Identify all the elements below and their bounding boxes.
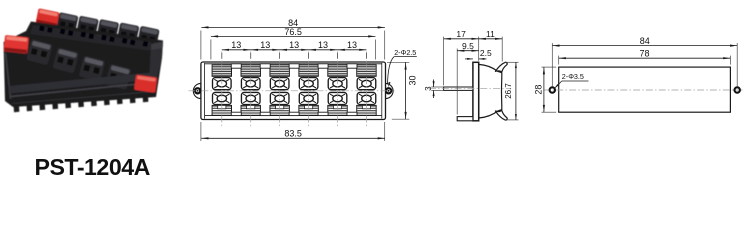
photo red tab front-left [3,35,29,54]
svg-text:2.5: 2.5 [480,48,492,58]
photo slab [9,73,154,94]
side view [424,29,518,121]
body outline [201,62,386,120]
panel hole right 3.5mm [735,87,740,92]
photo pin teeth [14,104,20,113]
panel hole left 3.5mm [550,87,555,92]
front view: terminal strip face [189,18,418,141]
dim 11 side [501,37,503,62]
terminal column 6 [357,65,376,77]
svg-text:84: 84 [640,36,650,46]
dim 30 front [387,61,409,63]
side bottom foot [457,117,473,121]
photo back row push buttons [56,12,79,34]
dim 83.5 front [200,122,202,141]
column centerlines [221,52,223,128]
photo right end cap [149,42,163,82]
side spring claw top [495,62,507,72]
dim 17 side [443,37,445,86]
svg-text:13: 13 [318,40,328,50]
terminal column 3 [270,65,289,77]
svg-text:11: 11 [486,29,495,39]
terminal column 5 [328,65,347,77]
svg-text:2-Φ3.5: 2-Φ3.5 [562,72,584,81]
svg-text:13: 13 [347,40,357,50]
dim 78 panel [558,56,560,65]
photo red tab front-right [134,75,157,93]
side solder pin [444,87,473,90]
svg-text:83.5: 83.5 [284,128,302,138]
terminal column 4 [299,65,318,77]
rear/panel view [534,36,745,112]
dim 84 front [200,31,202,60]
side centerline [429,88,511,90]
photo red tab back-left [35,8,59,27]
svg-text:13: 13 [231,40,241,50]
panel rectangle [559,67,731,112]
dim 2.5 side [465,58,473,60]
photo back row slots [39,26,53,33]
dim 84 panel [551,43,553,86]
dim 13 chain [221,53,223,59]
side body profile [479,64,502,118]
svg-text:26.7: 26.7 [504,83,513,99]
dim 76.5 front [210,40,212,60]
photo front row push buttons [26,39,53,65]
dim 26.7 side [505,61,519,63]
ear hole right 2.5mm [386,88,391,93]
mounting ear left [193,83,201,98]
panel centerline [544,89,745,91]
svg-text:30: 30 [408,75,418,85]
side spring claw bottom [495,110,507,120]
horizontal centerline front view [189,90,395,92]
dim 3 pin [431,86,443,88]
svg-text:28: 28 [534,85,544,95]
photo left face edge [6,53,11,99]
svg-text:2-Φ2.5: 2-Φ2.5 [394,48,416,57]
terminal column 2 [241,65,260,77]
dim 28 panel [542,66,557,68]
svg-text:3: 3 [424,86,433,91]
svg-text:PST-1204A: PST-1204A [35,154,151,180]
mounting ear right [386,83,394,98]
terminal column 1 [212,65,231,77]
svg-text:13: 13 [289,40,299,50]
svg-text:76.5: 76.5 [284,27,302,37]
housing tabs top edge [231,64,241,68]
svg-text:78: 78 [640,49,650,59]
svg-text:17: 17 [456,29,466,39]
svg-text:9.5: 9.5 [462,41,474,51]
photo body face [4,22,164,108]
svg-text:13: 13 [260,40,270,50]
ear hole left 2.5mm [195,88,200,93]
side flange plate [473,62,479,121]
dim 9.5 side [456,49,458,115]
